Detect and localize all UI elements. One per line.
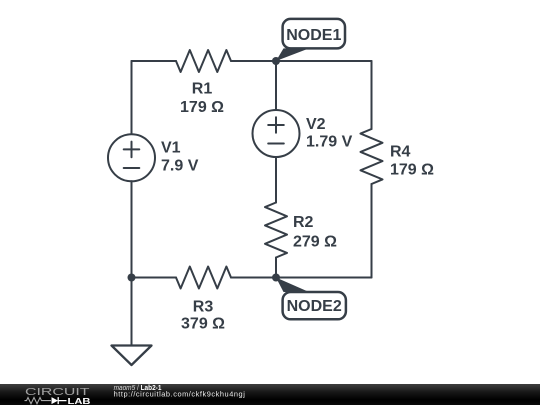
svg-text:1.79 V: 1.79 V: [306, 134, 353, 151]
node dot bottom left junction: [128, 274, 136, 282]
resistor R2: [265, 203, 287, 258]
wire bottom left horizontal: [132, 277, 177, 279]
wire top right horizontal: [231, 60, 372, 62]
CircuitLab logo resistor zigzag: [25, 398, 52, 404]
wire middle vertical upper: [275, 61, 277, 110]
svg-text:V2: V2: [306, 116, 326, 133]
footer bar: [0, 384, 540, 405]
wire bottom right horizontal: [231, 277, 372, 279]
svg-text:7.9 V: 7.9 V: [161, 157, 199, 174]
wire middle vertical lower: [275, 258, 277, 278]
svg-text:179 Ω: 179 Ω: [180, 99, 224, 116]
svg-text:http://circuitlab.com/ckfk9ckh: http://circuitlab.com/ckfk9ckhu4ngj: [114, 389, 246, 398]
node NODE2 flag pointer: [276, 278, 309, 293]
ground: [112, 346, 152, 366]
wire right vertical lower: [371, 184, 373, 278]
voltage source V2: [253, 110, 300, 157]
svg-text:V1: V1: [161, 140, 181, 157]
resistor R4: [361, 129, 383, 184]
svg-text:NODE2: NODE2: [287, 298, 342, 315]
svg-text:R3: R3: [193, 299, 214, 316]
wire left vertical upper: [131, 61, 133, 134]
voltage source V1: [108, 134, 155, 181]
svg-text:379 Ω: 379 Ω: [181, 315, 225, 332]
svg-text:NODE1: NODE1: [286, 27, 341, 44]
svg-text:R4: R4: [390, 144, 411, 161]
node dot NODE2: [272, 274, 280, 282]
resistor R3: [176, 267, 231, 289]
svg-text:LAB: LAB: [68, 396, 91, 405]
wire ground stem: [131, 278, 133, 346]
svg-text:179 Ω: 179 Ω: [390, 161, 434, 178]
wire left vertical lower: [131, 181, 133, 277]
svg-text:279 Ω: 279 Ω: [293, 233, 337, 250]
svg-text:R1: R1: [192, 80, 213, 97]
CircuitLab logo diode: [52, 397, 59, 404]
wire top left horizontal: [132, 60, 177, 62]
node dot NODE1: [272, 57, 280, 65]
svg-text:R2: R2: [293, 214, 314, 231]
resistor R1: [176, 50, 231, 72]
wire right vertical upper: [371, 61, 373, 129]
wire middle vertical mid: [275, 157, 277, 203]
node NODE2 flag box: [283, 292, 346, 319]
node NODE1 flag pointer: [276, 48, 309, 61]
node NODE1 flag box: [283, 19, 345, 49]
